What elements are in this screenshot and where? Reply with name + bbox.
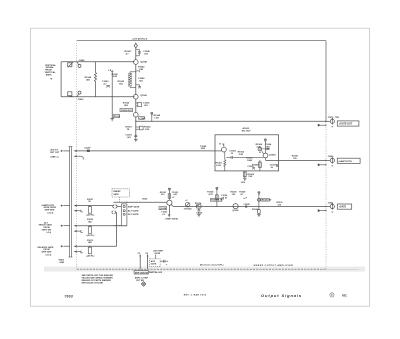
svg-text:.001: .001: [144, 105, 149, 107]
neon B1029: [258, 192, 261, 207]
resistor R1024 series: [195, 202, 202, 208]
svg-text:4.7K: 4.7K: [209, 193, 214, 196]
label SWP GATE: [128, 205, 140, 208]
power +15V flag pull-up R1026: [216, 187, 218, 207]
label T1040 input: [200, 145, 207, 150]
svg-text:+C: +C: [172, 197, 175, 199]
svg-text:SWEEP OUTPUT AMPLIFIER: SWEEP OUTPUT AMPLIFIER: [254, 264, 294, 267]
resistor R1066: [252, 160, 261, 171]
power +15V flag above Q1024: [168, 188, 170, 200]
svg-text:AUX: AUX: [151, 260, 156, 263]
svg-text:R1026 4.7K: R1026 4.7K: [211, 199, 223, 202]
resistor R1040: [85, 62, 97, 97]
test point boxed label P1035: [113, 115, 121, 118]
svg-text:.001: .001: [127, 137, 132, 139]
svg-text:7603: 7603: [65, 295, 74, 299]
wire row1 arrows: [61, 205, 114, 207]
symbol circled plus: [330, 293, 334, 297]
wire +SIG line arrows: [61, 150, 77, 152]
svg-text:SWP GEN: SWP GEN: [42, 251, 52, 253]
svg-text:50Ω: 50Ω: [201, 148, 205, 150]
wire Q1062 collector stub: [223, 143, 225, 147]
capacitor C1047 bypass at top: [125, 49, 151, 56]
transistor Q1062: [215, 143, 226, 152]
resistor R1069 below A1065: [244, 171, 255, 178]
svg-text:J1060: J1060: [328, 156, 335, 158]
transistor Q1024: [167, 200, 326, 206]
title Output Signals: [261, 293, 302, 298]
svg-text:+(DCPL): +(DCPL): [86, 235, 95, 237]
label T1021 PL: [161, 212, 168, 216]
label decoupled note: [200, 263, 224, 266]
resistor R1030 to ground: [252, 206, 261, 216]
svg-text:2.2K: 2.2K: [239, 154, 244, 156]
wire switch bottom path: [114, 225, 122, 227]
wire row3 arrows: [61, 245, 117, 247]
wire row1 return: [74, 210, 83, 212]
label A1065 title: [242, 127, 252, 133]
svg-text:+GATE: +GATE: [339, 206, 347, 209]
svg-text:◇21 ◎: ◇21 ◎: [46, 211, 53, 214]
svg-text:x: x: [246, 197, 248, 199]
svg-text:J1075: J1075: [328, 117, 335, 119]
svg-text:◇2 ◎: ◇2 ◎: [45, 231, 51, 234]
boxed label swp board: [134, 271, 163, 275]
power +15V flag inside A1065: [264, 139, 266, 153]
svg-text:SIG OUT: SIG OUT: [242, 130, 252, 132]
resistor R1013: [86, 240, 95, 258]
svg-text:GATE: GATE: [155, 252, 161, 255]
svg-text:J1040: J1040: [78, 59, 85, 62]
capacitor on aux output: [160, 260, 168, 266]
svg-text:WITH BLUE OUTLINE.: WITH BLUE OUTLINE.: [82, 283, 104, 285]
svg-text:R1066: R1066: [252, 164, 259, 166]
connector J1021 +GATE: [325, 202, 334, 212]
resistor R1064: [256, 143, 263, 150]
svg-text:C5: C5: [138, 253, 142, 255]
transistor Q1048: [134, 60, 148, 65]
label C1046 boxed: [139, 117, 146, 120]
svg-text:SWP GATE: SWP GATE: [128, 205, 140, 208]
wire column emitter resistor below gate line: [135, 121, 137, 139]
svg-text:910: 910: [161, 194, 165, 196]
svg-text:PL: PL: [163, 214, 166, 216]
wire A1065 output: [266, 158, 326, 161]
svg-text:20: 20: [271, 167, 274, 169]
svg-text:C1024: C1024: [196, 212, 203, 215]
node ALT TRACE GATE input label: [39, 221, 53, 234]
capacitor C1064: [265, 143, 272, 150]
svg-text:4.5K: 4.5K: [113, 75, 118, 78]
svg-text:1010: 1010: [241, 182, 246, 184]
resistor R1021: [86, 199, 95, 217]
svg-text:450: 450: [86, 78, 90, 81]
wire Q1045 emitter to gate line: [135, 117, 137, 121]
label B at Q1065: [259, 151, 263, 154]
svg-text:Q1065: Q1065: [269, 154, 276, 156]
wire row3 riser: [116, 212, 118, 246]
svg-text:Output Signals: Output Signals: [261, 293, 302, 298]
svg-text:750: 750: [293, 158, 297, 160]
svg-text:15: 15: [231, 153, 234, 155]
svg-text:1.5K: 1.5K: [145, 129, 150, 131]
wire switch output line: [114, 202, 167, 203]
resistor R1023: [160, 192, 171, 198]
svg-text:Q1048: Q1048: [140, 61, 147, 64]
label 750 ohm: [142, 199, 147, 201]
svg-text:.001: .001: [144, 53, 149, 55]
test point TP1038 label: [120, 108, 133, 112]
svg-text:VERT SW: VERT SW: [42, 229, 52, 231]
connector J1060 +SAWTOOTH OUT: [325, 156, 334, 166]
connector J1075 +GATE OUT: [325, 117, 339, 127]
svg-text:x: x: [166, 264, 168, 266]
label R1031: [276, 202, 283, 206]
capacitor C1043: [102, 80, 110, 87]
resistor R1026: [207, 191, 218, 199]
capacitor C1028 series: [243, 197, 250, 208]
svg-text:7K: 7K: [127, 129, 130, 131]
divider network R1035: [108, 70, 119, 121]
connector J1041: [68, 91, 85, 101]
resistor R1051: [125, 126, 151, 131]
transistor Q1043: [134, 94, 148, 99]
capacitor C1024 to ground: [196, 208, 203, 217]
svg-text:+GATE OUT: +GATE OUT: [339, 123, 353, 126]
label box +SAWTOOTH: [337, 158, 360, 163]
power +50V flag with resistor R1049: [151, 112, 161, 121]
resistor R1061: [216, 152, 226, 171]
svg-text:P1035: P1035: [114, 116, 121, 118]
svg-text:(Resistance values DCPL): (Resistance values DCPL): [200, 263, 224, 266]
svg-text:DLY GATE: DLY GATE: [128, 213, 139, 216]
svg-text:R1040: R1040: [85, 76, 92, 79]
svg-text:6.2K: 6.2K: [216, 165, 221, 167]
label below swp board: [135, 277, 149, 282]
resistor R1062: [238, 152, 245, 156]
title rev date: [184, 294, 207, 297]
label DLY GATE: [128, 213, 139, 216]
label REV: [342, 294, 347, 297]
svg-text:R1038 916: R1038 916: [121, 110, 132, 112]
node +SIG OUT label: [50, 150, 61, 159]
svg-text:SWP GEN: SWP GEN: [45, 209, 55, 211]
capacitor C1067 below box edge: [270, 164, 278, 169]
title 7603: [65, 295, 74, 299]
shield stub J1075: [318, 124, 326, 126]
transistor Q1065: [236, 153, 276, 158]
svg-text:Q1043: Q1043: [140, 94, 147, 97]
svg-text:1 B +: 1 B +: [108, 70, 114, 72]
shield cable double line: [59, 147, 73, 264]
connector pair P1021 row1: [113, 205, 122, 208]
connector pair P1021 lower: [112, 211, 117, 214]
ground below R1069: [241, 178, 247, 184]
amplifier block A1065 outline: [215, 135, 279, 171]
label SWEEP OUTPUT AMPLIFIER: [254, 264, 294, 267]
svg-text:+15V (DCPL) 8: +15V (DCPL) 8: [132, 38, 148, 40]
svg-text:⊲: ⊲: [50, 77, 53, 80]
transistor Q1026: [232, 204, 239, 212]
resistor R1043 parallel network: [118, 72, 136, 88]
svg-text:REC: REC: [342, 294, 347, 297]
chassis ground diamond: [141, 282, 145, 287]
label ALT GATE: [128, 209, 139, 212]
wire row2 arrows: [61, 225, 127, 227]
capacitor C1036: [143, 102, 150, 107]
shield stub J1021: [318, 210, 326, 212]
switch S1021 dashed label box: [112, 189, 130, 203]
notes text block: [82, 274, 114, 285]
connector J1040: [68, 59, 86, 67]
svg-text:750: 750: [232, 194, 236, 196]
capacitor C1026: [221, 195, 228, 199]
svg-text:.001: .001: [139, 81, 144, 83]
svg-text:(SEE ◇): (SEE ◇): [51, 156, 59, 159]
svg-text:B: B: [259, 152, 261, 154]
note above frame: [132, 38, 148, 40]
svg-text:GATE: GATE: [151, 263, 157, 266]
svg-text:AMPL: AMPL: [46, 73, 53, 76]
wire row3 return: [74, 251, 83, 253]
capacitor C1062: [226, 150, 236, 158]
svg-text:REV. C MAR 1974: REV. C MAR 1974: [184, 294, 207, 297]
svg-text:.001: .001: [173, 194, 178, 196]
svg-text:◇21 ◎: ◇21 ◎: [44, 253, 51, 256]
labels above Q1026: [230, 191, 246, 195]
svg-text:1.8K: 1.8K: [139, 69, 144, 71]
svg-text:100K: 100K: [247, 160, 253, 162]
svg-text:1K: 1K: [88, 201, 91, 203]
wire top pair upper: [61, 61, 134, 63]
node VERTICAL SIGNAL input label: [45, 64, 57, 81]
resistor R1063: [246, 157, 253, 162]
label box +GATE OUT: [337, 121, 359, 126]
wire column below Q1048: [135, 64, 137, 94]
svg-text:GATE: GATE: [113, 193, 119, 196]
svg-text:SWP GATE BD: SWP GATE BD: [135, 271, 149, 274]
svg-text:(SWP GATE): (SWP GATE): [166, 218, 179, 221]
node DLY'D GATE input label: [38, 246, 55, 257]
ground below column: [134, 140, 138, 142]
test point TP1024 boxed label: [159, 207, 167, 211]
capacitor C1065: [247, 166, 255, 169]
svg-text:J1021: J1021: [328, 202, 335, 204]
svg-text:R1029 1M: R1029 1M: [262, 200, 272, 202]
svg-text:1.5K: 1.5K: [154, 118, 159, 120]
wire stub aux 2: [145, 253, 149, 269]
wire top pair lower: [61, 96, 134, 98]
svg-text:CR1024: CR1024: [184, 208, 192, 211]
svg-text:Q1024: Q1024: [160, 207, 167, 210]
node +SAWTOOTH GATE input label: [41, 204, 56, 215]
wire Q1024 emitter down to other sheet: [166, 205, 179, 220]
resistor R1024b: [86, 219, 95, 237]
svg-text:47: 47: [225, 197, 228, 200]
svg-text:+C: +C: [185, 200, 188, 202]
svg-text:+(DCPL): +(DCPL): [86, 215, 95, 217]
svg-text:75Ω: 75Ω: [335, 117, 339, 119]
svg-text:CRT CKT: CRT CKT: [50, 152, 60, 154]
dashed box aux gate: [150, 255, 161, 267]
wire +SIG line to T1040: [77, 150, 215, 152]
resistor R1042 stub right: [136, 66, 145, 73]
shield stub J1060: [318, 164, 326, 166]
svg-text:Q1026: Q1026: [232, 210, 239, 212]
svg-text:ALT GATE: ALT GATE: [128, 209, 139, 212]
capacitor C1045 stub right: [136, 77, 145, 88]
svg-text:15K: 15K: [248, 176, 252, 178]
svg-text:C6: C6: [145, 253, 149, 255]
capacitor C1023: [172, 192, 179, 199]
diode CR1024: [184, 200, 192, 211]
wire R1064/C1064 tie bar: [260, 148, 270, 150]
label aux swp gate: [153, 250, 163, 255]
power +15V diamond flag: [134, 43, 137, 60]
wire stub aux 1: [138, 253, 142, 269]
capacitor C1051: [125, 134, 137, 139]
switch contacts box: [121, 204, 127, 226]
svg-text:+(DCPL): +(DCPL): [86, 255, 95, 257]
svg-text:750Ω: 750Ω: [142, 199, 147, 201]
svg-text:PARTIAL A10: PARTIAL A10: [149, 271, 163, 274]
wire row2 return: [74, 230, 83, 232]
svg-text:GND: GND: [60, 262, 65, 264]
transistor Q1045: [134, 112, 139, 117]
label box +GATE: [337, 204, 351, 209]
svg-text:C1046: C1046: [139, 117, 146, 120]
wire pair left return: [60, 62, 62, 97]
svg-text:R1030: R1030: [252, 209, 259, 211]
resistor R1036: [123, 102, 142, 107]
resistor R1067: [292, 156, 299, 161]
wire column below Q1043: [135, 99, 137, 112]
wire +SIG return stub: [74, 155, 84, 159]
boxed label B1029: [261, 199, 272, 202]
svg-text:B: B: [219, 143, 221, 145]
ferrite bead on +SIG line: [84, 146, 90, 152]
wire +GATE line: [135, 121, 326, 122]
svg-text:+SAWTOOTH: +SAWTOOTH: [338, 160, 352, 163]
svg-text:J1041: J1041: [78, 98, 85, 101]
boxed label R1026: [211, 198, 223, 201]
